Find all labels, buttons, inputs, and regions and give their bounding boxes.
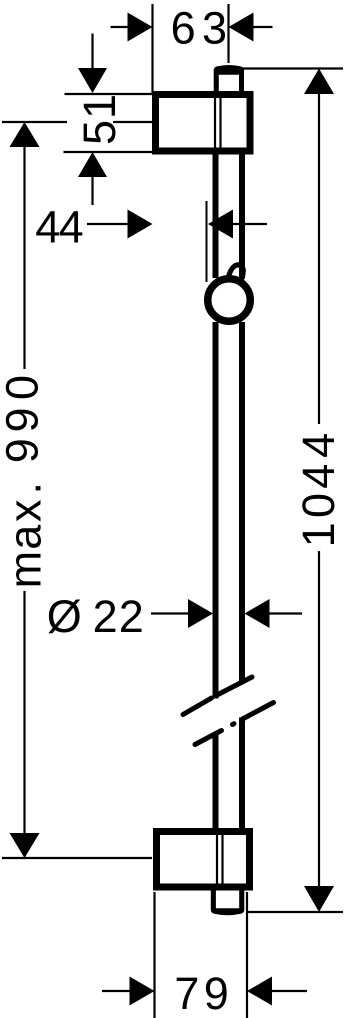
svg-text:4: 4	[35, 202, 60, 253]
rod line right lower segment	[239, 718, 245, 832]
wire: extension line bottom of dim 51	[64, 151, 153, 153]
svg-text:2: 2	[119, 591, 144, 642]
dimension 79 arrow left	[130, 977, 155, 1006]
rod line right mid segment	[239, 322, 245, 681]
dimension 1044 line upper	[318, 93, 320, 424]
dimension 51 arrow top	[78, 68, 107, 93]
svg-text:0: 0	[293, 493, 344, 518]
svg-text:2: 2	[93, 591, 118, 642]
label 51 (rotated)	[74, 94, 125, 145]
svg-text:6: 6	[171, 3, 196, 54]
rod bottom cap	[211, 884, 245, 915]
dimension 44 arrow right	[208, 210, 233, 239]
label 79	[174, 968, 228, 1018]
wire: extension line left of dim 79	[153, 892, 155, 1018]
label 44	[35, 202, 83, 253]
wire: extension line right of dim 63	[227, 4, 229, 63]
node: centerline at holder	[206, 201, 208, 282]
label max. 990 (rotated)	[0, 375, 51, 588]
rod top cap	[214, 65, 244, 97]
wire: extension line bottom of dim max 990	[2, 857, 152, 859]
rod line right upper segment	[239, 154, 245, 278]
svg-text:4: 4	[293, 433, 344, 458]
svg-text:5: 5	[74, 120, 125, 145]
dimension 63 arrow right	[229, 13, 254, 42]
svg-text:9: 9	[0, 438, 48, 463]
wall bracket bottom	[157, 832, 250, 888]
rod seam lines in top bracket	[214, 98, 216, 148]
rod seam lines in bottom bracket	[216, 835, 218, 884]
dimension max 990 line lower	[23, 591, 25, 834]
slider hook	[228, 265, 244, 280]
svg-text:0: 0	[0, 375, 48, 400]
dimension 63 line right tail	[251, 26, 273, 28]
rod line left lower segment	[213, 734, 219, 832]
dimension 51 line bottom tail	[91, 176, 93, 205]
wire: extension line top of dim 51	[65, 93, 153, 95]
svg-text:3: 3	[202, 3, 227, 54]
svg-text:1: 1	[293, 522, 344, 547]
dimension 44 line right tail	[231, 223, 267, 225]
svg-text:4: 4	[293, 464, 344, 489]
dimension 1044 line lower	[318, 551, 320, 887]
dimension 1044 arrow top	[304, 69, 334, 95]
wire: extension line top of dim max 990	[2, 121, 67, 123]
wall bracket top	[156, 95, 251, 152]
wire: extension line top of dim 1044	[240, 67, 343, 69]
rod line left mid segment	[213, 322, 219, 699]
label diameter 22	[47, 591, 144, 642]
dimension max 990 arrow top	[10, 122, 40, 147]
svg-text:Ø: Ø	[47, 591, 82, 642]
svg-text:a: a	[0, 524, 51, 550]
dimension 22 line right tail	[267, 612, 302, 614]
dimension 51 arrow bottom	[78, 152, 107, 177]
dimension 63 arrow left	[128, 13, 153, 42]
wire: extension line right of dim 79	[246, 892, 248, 1018]
wire: extension line bottom of dim 1044	[248, 911, 343, 913]
pipe break upper diagonal	[183, 677, 252, 715]
dimension max 990 line upper	[23, 146, 25, 369]
dimension 1044 arrow bottom	[304, 886, 334, 912]
dimension 22 line left tail	[151, 612, 190, 614]
dimension max 990 arrow bottom	[10, 833, 40, 858]
dimension 79 arrow right	[247, 977, 272, 1006]
dimension 51 line top tail	[91, 34, 93, 70]
dimension 44 arrow left	[128, 210, 153, 239]
svg-text:.: .	[0, 482, 51, 495]
svg-text:9: 9	[0, 407, 48, 432]
svg-text:7: 7	[174, 968, 199, 1018]
svg-text:1: 1	[74, 94, 125, 119]
dimension 79 line right tail	[270, 990, 307, 992]
slider ring	[208, 279, 251, 322]
pipe break lower diagonal	[195, 703, 274, 745]
rod line left upper segment	[213, 154, 219, 278]
dimension 63 line left tail	[111, 26, 131, 28]
dimension 22 arrow left	[188, 599, 213, 628]
wire: extension line left of dim 63	[151, 4, 153, 93]
label 63	[171, 3, 227, 54]
dimension 22 arrow right	[245, 599, 270, 628]
svg-text:x: x	[0, 499, 51, 522]
dimension 79 line left tail	[102, 990, 131, 992]
dimension 44 leader line left	[87, 223, 131, 225]
svg-text:4: 4	[59, 202, 84, 253]
svg-text:9: 9	[204, 968, 229, 1018]
svg-text:m: m	[0, 551, 51, 589]
label 1044 (rotated)	[293, 433, 344, 548]
